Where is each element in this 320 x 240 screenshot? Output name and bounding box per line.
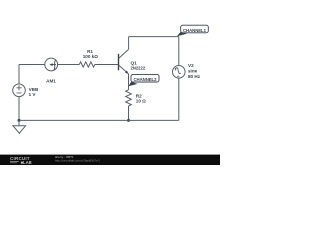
wire: V2 bottom lead to bottom rail (178, 78, 180, 120)
node label CHANNEL1 (181, 25, 209, 33)
wire: V2 top lead (178, 37, 180, 66)
svg-text:100 kΩ: 100 kΩ (83, 54, 98, 59)
resistor R1 zigzag (79, 62, 95, 67)
svg-text:R2: R2 (136, 93, 142, 98)
ammeter AM1 (45, 58, 58, 71)
resistor R2 zigzag vertical (126, 90, 132, 106)
wire: bottom rail (19, 119, 179, 121)
wire: left vertical from base rail corner down to VBB top (18, 65, 20, 85)
svg-text:AM1: AM1 (46, 78, 56, 83)
svg-text:1 V: 1 V (29, 92, 37, 97)
transistor Q1 2N2222 (119, 49, 129, 74)
svg-text:sine: sine (188, 68, 198, 73)
wire: base rail from corner to ammeter (19, 64, 45, 66)
svg-text:CHANNEL1: CHANNEL1 (183, 28, 207, 33)
wire: top rail to V2 (129, 36, 179, 38)
footer logo CIRCUIT LAB (10, 156, 32, 165)
svg-text:http://circuitlab.com/c/5ap6j3: http://circuitlab.com/c/5ap6j3r7m3 (55, 159, 100, 163)
svg-text:80 Hz: 80 Hz (188, 74, 201, 79)
node junction dot at ground rail left (18, 119, 21, 122)
flag pointer CHANNEL2 (128, 82, 137, 87)
wire: collector vertical up (128, 37, 130, 50)
wire: VBB bottom to ground junction (18, 97, 20, 121)
svg-text:■LAB: ■LAB (21, 160, 32, 165)
wire: R2 bottom to bottom rail (128, 106, 130, 120)
ground stub wire (18, 120, 20, 125)
footer bar (0, 155, 220, 165)
ground symbol (13, 126, 26, 133)
wire: emitter vertical to R2 (128, 74, 130, 90)
node label CHANNEL2 (131, 74, 159, 82)
flag pointer CHANNEL1 (177, 32, 187, 37)
voltage source V2 (sine 80 Hz) (173, 66, 186, 79)
svg-text:CHANNEL2: CHANNEL2 (134, 77, 158, 82)
svg-text:10 Ω: 10 Ω (136, 99, 146, 104)
wire: ammeter to resistor R1 (58, 64, 80, 66)
svg-text:2N2222: 2N2222 (131, 66, 146, 71)
wire: resistor R1 to transistor base (95, 64, 119, 66)
voltage source VBB (1 V) (13, 84, 26, 97)
node junction dot at R2 bottom (127, 119, 130, 122)
